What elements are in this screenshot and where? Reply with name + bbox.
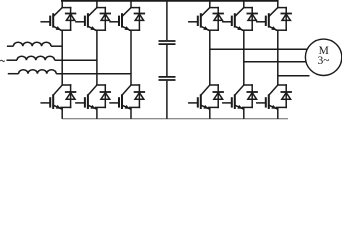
svg-text:3~: 3~ <box>318 55 330 67</box>
